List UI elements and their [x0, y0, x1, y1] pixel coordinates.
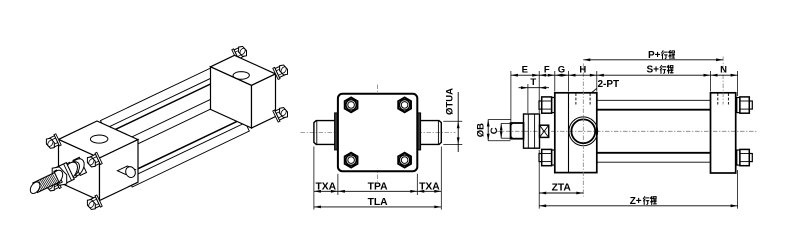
svg-text:ØTUA: ØTUA: [445, 88, 456, 115]
ext line pin left end: [313, 147, 315, 210]
tie-rod nut 3D head top-right: [95, 152, 102, 164]
svg-text:2-PT: 2-PT: [598, 79, 620, 90]
ext line head right: [596, 71, 598, 92]
svg-text:ØB: ØB: [476, 123, 487, 137]
port 2-PT hidden lines (head): [575, 93, 577, 104]
tie-rod nut (head, top): [542, 97, 552, 113]
rod lock nut: [524, 114, 540, 148]
ext line nut face: [538, 71, 540, 113]
ext line plate right: [416, 174, 418, 195]
dim TXA left: [314, 190, 338, 192]
svg-text:H: H: [579, 65, 586, 76]
head plate (front): [338, 94, 417, 171]
svg-text:S+: S+: [647, 65, 660, 76]
pin collar right: [417, 113, 420, 150]
ext line head left: [554, 71, 556, 92]
pin collar left: [335, 113, 338, 150]
dim F: [539, 74, 555, 76]
tie-rod nut front TL: [345, 98, 358, 113]
tie rod (top line): [597, 99, 711, 101]
dim G: [555, 74, 569, 76]
dim TLA: [314, 206, 441, 208]
svg-text:C: C: [489, 127, 500, 134]
cylinder cap block: [711, 93, 736, 173]
head port hole (3D): [90, 135, 108, 143]
ext line cap left: [710, 71, 712, 92]
dim H: [569, 74, 597, 76]
cap block (3D): [211, 55, 276, 85]
cylinder tube (3D): [107, 79, 242, 175]
tie-rod nut 3D head bottom-right: [95, 195, 102, 207]
trunnion pin (circle): [569, 117, 598, 146]
tie-rod nut front TR: [398, 98, 411, 113]
node axis centerline (side view): [497, 130, 757, 132]
cylinder tube top: [597, 109, 711, 111]
cap port hole (3D): [233, 72, 249, 80]
ext line cap right washer: [737, 71, 739, 96]
head block (3D): [59, 121, 139, 158]
rod wrench flat: [540, 125, 549, 137]
ext line gland joint: [568, 71, 570, 92]
tie rod 3D far-top: [101, 65, 222, 129]
dim E: [511, 74, 539, 76]
centerline horizontal (front view): [301, 131, 456, 133]
ext line rod tip: [510, 71, 512, 122]
dim TPA: [338, 190, 417, 192]
ext line nut face lower: [538, 150, 540, 209]
tie-rod nut (cap, bottom): [740, 149, 749, 165]
svg-text:E: E: [522, 65, 528, 76]
ext line cap right lower: [737, 170, 739, 209]
ext line pin right end: [440, 147, 442, 210]
trunnion pin left: [314, 121, 338, 145]
trunnion vertical centerline: [582, 64, 584, 197]
centerline vertical (front view): [377, 85, 379, 182]
tie-rod nut 3D head bottom-left: [54, 176, 61, 188]
piston rod threaded end: [511, 123, 524, 139]
svg-text:P+: P+: [648, 50, 661, 61]
tie-rod nut front BR: [398, 153, 411, 168]
tie rod 3D near-top: [113, 90, 230, 146]
tie-rod nut (cap, top): [740, 97, 749, 113]
svg-text:F: F: [544, 65, 550, 76]
svg-text:TXA: TXA: [315, 181, 336, 192]
svg-text:G: G: [558, 65, 565, 76]
tie-rod nut 3D cap near-top: [273, 67, 280, 79]
dim S+stroke: [597, 74, 711, 76]
dim N: [711, 74, 738, 76]
tie rod 3D near-bottom: [128, 123, 249, 187]
tie-rod nut front BL: [345, 153, 358, 168]
svg-text:ZTA: ZTA: [552, 183, 572, 194]
cylinder head block: [555, 93, 597, 173]
svg-text:Z+: Z+: [630, 196, 642, 207]
dim C: [501, 122, 510, 124]
piston rod with nut and thread (3D): [30, 157, 86, 193]
svg-text:TXA: TXA: [419, 181, 440, 192]
tie-rod nut 3D cap far-top: [232, 49, 239, 61]
dim P+stroke: [583, 59, 723, 61]
ext line plate left: [337, 174, 339, 195]
dim Z+stroke: [539, 205, 737, 207]
trunnion pin (3D): [117, 166, 135, 175]
tie rod (bottom line): [597, 161, 711, 163]
dim TXA right: [417, 190, 441, 192]
svg-text:TLA: TLA: [368, 197, 389, 208]
port hidden lines (cap): [717, 93, 719, 104]
dim ZTA: [539, 192, 583, 194]
cylinder tube bottom: [597, 152, 711, 154]
cap port vertical centerline: [722, 57, 724, 105]
dim ØB: [488, 119, 510, 121]
svg-text:T: T: [530, 77, 536, 88]
svg-text:TPA: TPA: [368, 181, 388, 192]
svg-text:N: N: [720, 65, 727, 76]
trunnion pin right: [417, 121, 441, 145]
dim T: [527, 84, 529, 113]
tie-rod nut 3D cap near-bottom: [273, 110, 280, 122]
tie-rod nut 3D head top-left: [54, 134, 61, 146]
tie-rod nut (head, bottom): [542, 149, 552, 165]
dim ØTUA: [443, 120, 462, 122]
